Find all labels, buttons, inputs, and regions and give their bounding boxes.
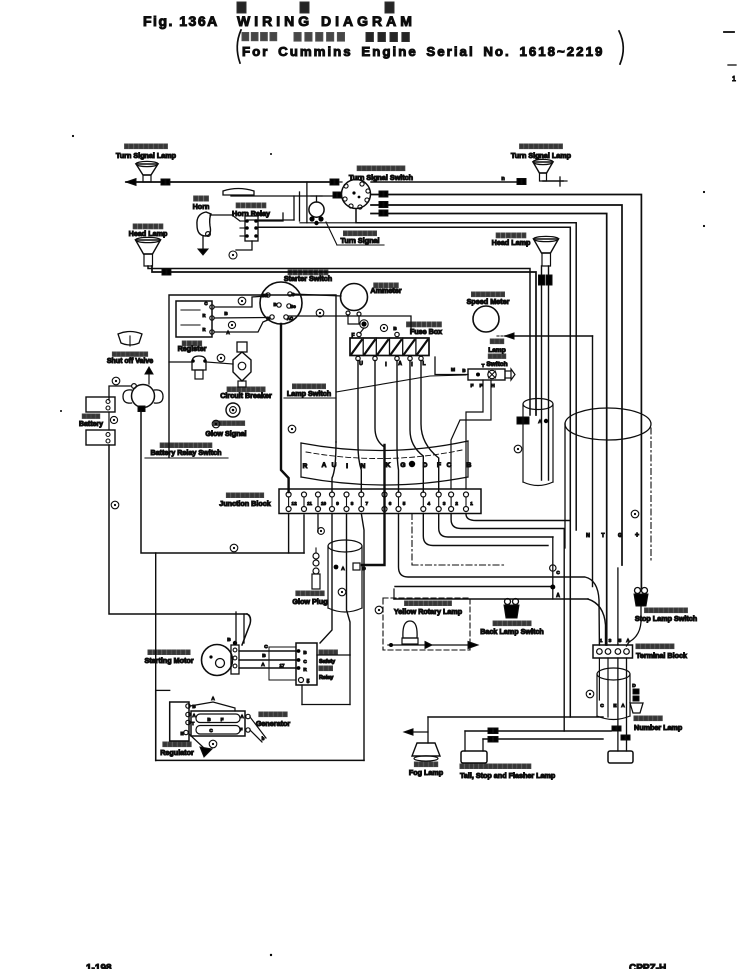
generator	[191, 711, 250, 736]
enclosure wire top-left loop	[169, 295, 336, 457]
svg-text:B: B	[207, 717, 211, 722]
turn signal flasher unit	[309, 196, 324, 225]
svg-text:Stop Lamp Switch: Stop Lamp Switch	[635, 614, 697, 623]
wire right lamp tail with end mark	[543, 177, 567, 186]
wire turn signal T	[371, 210, 607, 645]
back lamp switch	[504, 599, 519, 619]
page number bottom left	[86, 963, 112, 969]
wire bottom run lower	[483, 735, 630, 742]
svg-text:G: G	[618, 533, 622, 539]
wire junction-5 long loop	[399, 514, 600, 646]
svg-text:U: U	[359, 361, 363, 367]
svg-text:C: C	[447, 462, 452, 469]
svg-text:4: 4	[428, 501, 431, 506]
small harness cylinder	[523, 399, 553, 486]
label fog lamp	[409, 762, 444, 777]
svg-text:N: N	[586, 533, 590, 539]
svg-text:17: 17	[280, 663, 285, 668]
wire head lamp right pair	[539, 266, 553, 480]
svg-text:A: A	[626, 638, 630, 644]
node 13 in glow cylinder	[338, 588, 346, 596]
tail stop flasher lamp (right)	[608, 751, 633, 763]
wires terminal block down	[599, 658, 626, 751]
wire register R2 to switch R	[214, 311, 270, 318]
wire battery negative to starting motor	[109, 445, 251, 645]
svg-text:Bo: Bo	[290, 304, 296, 309]
label horn relay	[232, 203, 270, 218]
thermo unit left of breaker	[191, 356, 207, 379]
subtitle parentheses	[237, 30, 623, 64]
tail lamp left leads	[465, 731, 483, 751]
wire junction-4 nested	[423, 514, 548, 546]
svg-text:11: 11	[307, 501, 312, 506]
svg-text:C: C	[264, 644, 268, 650]
svg-text:Head Lamp: Head Lamp	[492, 238, 531, 247]
svg-text:Turn Signal: Turn Signal	[341, 236, 380, 245]
glow plug	[312, 548, 320, 589]
svg-text:F: F	[221, 717, 224, 722]
label turn signal lamp (left)	[116, 144, 177, 160]
label junction block	[219, 493, 271, 508]
svg-text:AC: AC	[287, 316, 293, 321]
label head lamp (left)	[129, 224, 168, 238]
wire column x552 with connector ring	[550, 537, 561, 599]
wire junction-7 to generator enclosure	[361, 514, 364, 761]
svg-text:B: B	[467, 462, 472, 469]
label shut off valve	[107, 352, 153, 365]
svg-text:Safety: Safety	[319, 659, 335, 665]
wire battery to relay	[109, 386, 131, 400]
horn relay contacts	[240, 216, 258, 241]
wire relay contact upper	[258, 213, 283, 221]
svg-text:Ammeter: Ammeter	[370, 286, 401, 295]
svg-text:1: 1	[600, 638, 603, 644]
glow plug connectors	[334, 563, 367, 572]
svg-text:n: n	[501, 176, 505, 182]
svg-text:Starting Motor: Starting Motor	[144, 656, 193, 665]
starting motor	[202, 645, 233, 676]
wires motor to safety relay	[239, 644, 296, 668]
horn relay cover bar	[223, 189, 254, 196]
glow plug cylinder	[328, 540, 362, 612]
label circuit breaker	[220, 387, 272, 400]
wire dash-dot drop from band	[411, 514, 413, 566]
title Fig. 136A WIRING DIAGRAM	[143, 13, 416, 29]
svg-text:R: R	[202, 313, 205, 318]
svg-text:L: L	[422, 361, 425, 367]
big harness cylinder	[565, 408, 651, 560]
node near glow signal	[212, 420, 220, 428]
register R1	[176, 301, 214, 337]
svg-text:D: D	[362, 566, 366, 571]
small cylinder connectors	[517, 417, 548, 425]
label generator	[256, 712, 291, 728]
number lamp housing cylinder	[597, 668, 630, 720]
svg-text:Starter Switch: Starter Switch	[284, 274, 332, 283]
svg-text:Head Lamp: Head Lamp	[129, 229, 168, 238]
node 2 on wire	[238, 297, 246, 305]
node 2 on battery negative wire	[111, 501, 119, 509]
node 12 in small cylinder	[514, 445, 522, 453]
svg-text:Circuit Breaker: Circuit Breaker	[220, 391, 272, 400]
svg-text:3: 3	[443, 501, 446, 506]
wire junction-1 nested	[466, 514, 570, 521]
svg-text:R: R	[303, 463, 308, 470]
svg-text:Yellow Rotary Lamp: Yellow Rotary Lamp	[394, 607, 463, 616]
svg-text:F: F	[240, 727, 243, 732]
wire junction-12 drop	[288, 514, 290, 554]
label stop lamp switch	[635, 608, 697, 623]
svg-text:Generator: Generator	[256, 719, 291, 728]
yellow rotary lamp	[402, 621, 418, 644]
node dot in band	[409, 461, 415, 467]
svg-text:10: 10	[321, 501, 327, 506]
node mark on R1 wire	[228, 321, 235, 328]
svg-text:A: A	[538, 419, 542, 425]
wire switch B main (thick)	[281, 324, 289, 492]
svg-text:T: T	[192, 721, 195, 726]
speed meter	[473, 306, 499, 332]
svg-text:F: F	[471, 383, 474, 389]
svg-text:Turn Signal Switch: Turn Signal Switch	[349, 173, 413, 182]
label battery relay switch	[145, 443, 228, 458]
svg-text:B: B	[303, 650, 307, 655]
svg-text:Lamp Switch: Lamp Switch	[287, 389, 331, 398]
label register	[178, 341, 207, 353]
wire back lamp feed	[394, 589, 606, 645]
wire safety relay right loop	[302, 655, 350, 705]
svg-text:Fuse Box: Fuse Box	[410, 327, 442, 336]
wire lamp switch left lead	[435, 357, 468, 375]
battery relay switch	[123, 384, 163, 412]
label lamp switch (vertical)	[486, 339, 507, 368]
svg-text:B: B	[227, 637, 231, 643]
svg-text:A: A	[621, 703, 625, 709]
svg-text:Regulator: Regulator	[160, 748, 194, 757]
svg-text:Turn Signal Lamp: Turn Signal Lamp	[511, 151, 572, 160]
wire register C to switch BR	[214, 296, 266, 307]
wire h7 to connector dot	[395, 586, 553, 588]
number lamp connector	[630, 683, 643, 713]
generator output leads	[250, 717, 266, 742]
fuse box	[350, 326, 429, 356]
safety relay	[296, 643, 317, 685]
wire turn signal G	[371, 202, 622, 566]
label starter switch	[284, 270, 332, 283]
wire x617 stub to terminal block	[617, 568, 619, 645]
node between battery cells	[110, 416, 117, 423]
label turn signal (flasher)	[326, 222, 384, 245]
wire thermo to breaker	[169, 362, 233, 364]
svg-text:F: F	[480, 383, 483, 389]
svg-text:6: 6	[389, 501, 392, 506]
battery	[86, 397, 115, 445]
subtitle english line	[242, 44, 604, 59]
svg-text:Horn: Horn	[193, 202, 210, 211]
svg-text:A: A	[341, 566, 345, 572]
wire from switch bottom (x576 column)	[356, 209, 576, 530]
svg-text:Terminal Block: Terminal Block	[636, 651, 687, 660]
svg-text:C: C	[556, 570, 560, 575]
label number lamp	[634, 716, 683, 732]
svg-text:B: B	[262, 653, 266, 659]
wires fuse box to junction block	[332, 361, 439, 493]
svg-text:D: D	[632, 683, 636, 689]
wire turn signal M (to +column)	[371, 191, 641, 588]
label fuse box	[407, 322, 443, 336]
subtitle japanese line	[242, 33, 409, 42]
lamp switch S1	[451, 363, 515, 389]
svg-text:Number Lamp: Number Lamp	[634, 723, 683, 732]
wire junction-8 glow area	[347, 514, 351, 656]
wire flasher vertical tap	[306, 182, 308, 223]
label starting motor	[144, 650, 193, 665]
wire bottom run mid	[465, 726, 621, 734]
wire to right turn signal lamp	[371, 176, 526, 185]
svg-text:R: R	[303, 667, 307, 672]
wire junction-11 drop	[303, 515, 305, 553]
node 10 at regulator ground	[209, 740, 217, 748]
turn signal lamp (right)	[533, 159, 553, 181]
title kanji 配線図	[237, 2, 394, 13]
svg-text:I: I	[385, 362, 387, 368]
svg-text:1: 1	[470, 501, 473, 506]
svg-text:7: 7	[366, 501, 369, 506]
node 3 on bottom wire	[230, 544, 238, 552]
regulator	[170, 702, 197, 741]
svg-text:Fog Lamp: Fog Lamp	[409, 768, 444, 777]
svg-text:1-198: 1-198	[86, 963, 112, 969]
svg-text:B: B	[462, 368, 465, 373]
connector switch left input	[330, 179, 342, 185]
wire horn relay long (x570 column)	[258, 223, 570, 717]
wire horn ground	[198, 236, 208, 255]
svg-text:5: 5	[403, 501, 406, 506]
svg-text:8: 8	[351, 501, 354, 506]
svg-text:T: T	[601, 533, 605, 539]
wire turn signal lamp left feed	[126, 179, 332, 186]
svg-text:+: +	[635, 532, 639, 539]
label horn	[193, 196, 210, 211]
svg-text:A: A	[398, 361, 402, 367]
node 4 and arrow at battery relay	[112, 367, 153, 385]
wire junction-9 to safety relay	[320, 514, 332, 644]
circuit breaker	[233, 342, 251, 387]
svg-text:Back Lamp Switch: Back Lamp Switch	[480, 627, 544, 636]
svg-text:A: A	[322, 462, 327, 469]
svg-text:C: C	[209, 728, 213, 733]
svg-text:I: I	[346, 463, 348, 470]
wire junction-2 nested	[451, 514, 564, 732]
label terminal block	[636, 644, 687, 660]
label turn signal switch	[349, 166, 413, 182]
starting motor terminals	[227, 637, 239, 674]
fuse box bottom terminals	[356, 356, 426, 368]
svg-text:CPPZ-H: CPPZ-H	[629, 963, 666, 969]
safety relay dashed box	[269, 647, 296, 680]
wire dash-dot horizontal	[412, 564, 505, 566]
junction block terminal numbers	[292, 501, 474, 506]
wire junction-10 stub with node	[318, 514, 325, 535]
svg-text:2: 2	[455, 501, 458, 506]
svg-text:Relay: Relay	[319, 675, 333, 681]
wire switch left lower input	[294, 192, 341, 198]
svg-text:I: I	[411, 362, 413, 368]
svg-text:A: A	[556, 593, 560, 599]
harness band letters	[303, 462, 472, 470]
svg-text:Shut off Valve: Shut off Valve	[107, 358, 153, 365]
wire relay bottom to node 3	[236, 241, 252, 250]
label back lamp switch	[480, 621, 544, 636]
tail stop flasher lamp (left)	[461, 751, 487, 763]
wire bottom run upper	[428, 716, 603, 718]
wire junction-3 nested	[439, 514, 553, 538]
svg-text:Speed Meter: Speed Meter	[467, 297, 510, 306]
wire switch C to ammeter	[293, 294, 341, 296]
generator enclosure wire	[156, 690, 364, 760]
svg-text:For Cummins Engine Serial No.: For Cummins Engine Serial No. 1618~2219	[242, 44, 604, 59]
head lamp (left)	[136, 237, 161, 266]
wire switch AC long	[289, 316, 411, 334]
svg-text:B: B	[224, 311, 228, 316]
label turn signal lamp (right)	[511, 144, 572, 160]
junction block	[279, 489, 481, 514]
glow signal	[226, 403, 240, 417]
svg-text:5: 5	[619, 638, 622, 644]
bottom center dot	[270, 954, 272, 956]
label tail stop and flasher lamp	[460, 764, 556, 780]
fog lamp lead	[404, 717, 428, 743]
connector on left turn signal wire	[161, 179, 170, 185]
document code bottom right	[629, 963, 666, 969]
right margin marks	[724, 32, 736, 83]
svg-text:Switch: Switch	[486, 361, 507, 368]
svg-text:Lamp: Lamp	[488, 347, 506, 354]
label yellow rotary lamp	[394, 601, 463, 616]
right column letters	[586, 532, 639, 539]
svg-text:Turn Signal Lamp: Turn Signal Lamp	[116, 151, 177, 160]
svg-text:G: G	[400, 462, 405, 469]
svg-text:12: 12	[292, 501, 298, 506]
terminal block numbers	[600, 638, 631, 644]
svg-text:b: b	[262, 736, 265, 741]
svg-text:A: A	[261, 662, 265, 668]
margin specks	[60, 135, 705, 412]
starter switch U1	[260, 282, 302, 324]
svg-text:Battery: Battery	[79, 421, 103, 428]
svg-text:C: C	[303, 659, 307, 664]
svg-text:B: B	[393, 326, 397, 331]
svg-text:B: B	[273, 302, 276, 307]
label speed meter	[467, 292, 510, 306]
wire register R1 lower	[214, 319, 270, 335]
node mark above junction label	[288, 425, 296, 433]
wire lamp switch F drops	[451, 380, 491, 489]
svg-text:F: F	[351, 333, 354, 339]
node 11 at dashed box	[375, 606, 383, 614]
svg-text:Junction Block: Junction Block	[219, 499, 271, 508]
wire head lamp left pair	[148, 266, 536, 415]
svg-text:C: C	[600, 703, 604, 709]
svg-text:H: H	[491, 383, 495, 389]
label glow signal	[205, 421, 246, 438]
svg-text:A: A	[211, 696, 215, 701]
label head lamp (right)	[492, 233, 531, 247]
svg-text:E: E	[180, 731, 183, 736]
wire main thick feed to glow plug	[362, 445, 385, 565]
svg-text:Tail, Stop and Flasher Lamp: Tail, Stop and Flasher Lamp	[460, 771, 556, 780]
wire regulator top link	[190, 696, 235, 711]
label glow plug	[292, 591, 327, 606]
svg-text:9: 9	[336, 501, 339, 506]
shut off valve	[118, 332, 142, 347]
wires motor top feeds	[236, 612, 244, 643]
node 3 near horn ground	[229, 251, 237, 259]
label ammeter	[370, 283, 401, 295]
svg-text:5: 5	[307, 679, 310, 685]
horn relay bracket	[231, 192, 300, 221]
svg-text:3: 3	[609, 638, 612, 644]
svg-text:Glow Plug: Glow Plug	[292, 597, 327, 606]
svg-text:1: 1	[732, 76, 736, 83]
wire battery relay down and across	[141, 411, 304, 760]
svg-text:E: E	[613, 703, 617, 709]
wire stop switch to terminal block	[627, 606, 642, 646]
label safety relay	[319, 650, 337, 681]
fog lamp	[412, 743, 440, 761]
label lamp switch (left callout)	[284, 375, 466, 398]
svg-text:R: R	[202, 327, 205, 332]
turn signal switch	[342, 180, 371, 210]
svg-text:Fig. 136A: Fig. 136A	[143, 13, 219, 29]
turn signal lamp (left)	[136, 161, 158, 182]
head lamp (right)	[534, 236, 559, 266]
wire horn to relay	[210, 215, 240, 221]
svg-text:Glow Signal: Glow Signal	[205, 429, 246, 438]
horn	[197, 212, 211, 236]
node 13 near breaker	[217, 354, 225, 362]
node junction at ammeter output	[360, 320, 368, 328]
wire lamp feed from panel	[497, 333, 593, 587]
svg-text:WIRING DIAGRAM: WIRING DIAGRAM	[237, 13, 416, 29]
wire yellow rotary lamp	[388, 641, 478, 648]
terminal block	[593, 645, 633, 658]
svg-text:Register: Register	[178, 344, 207, 353]
stop lamp switch	[634, 588, 648, 607]
cable harness band	[301, 441, 468, 485]
yellow rotary lamp dashed box	[383, 598, 470, 650]
node 10 above fuse box	[380, 324, 387, 331]
ammeter	[341, 284, 368, 317]
svg-text:M: M	[451, 367, 455, 373]
node 1 on AC wire	[316, 309, 324, 317]
wire ammeter to fuse F	[348, 315, 364, 333]
regulator ground	[189, 734, 212, 757]
svg-text:K: K	[386, 462, 391, 469]
node 9 near + column	[631, 510, 639, 518]
label regulator	[160, 742, 194, 757]
label battery	[79, 414, 103, 428]
svg-text:A: A	[240, 714, 244, 719]
svg-text:T: T	[482, 363, 485, 368]
svg-text:Battery Relay Switch: Battery Relay Switch	[150, 448, 221, 457]
node 6 left of housing	[586, 690, 594, 698]
